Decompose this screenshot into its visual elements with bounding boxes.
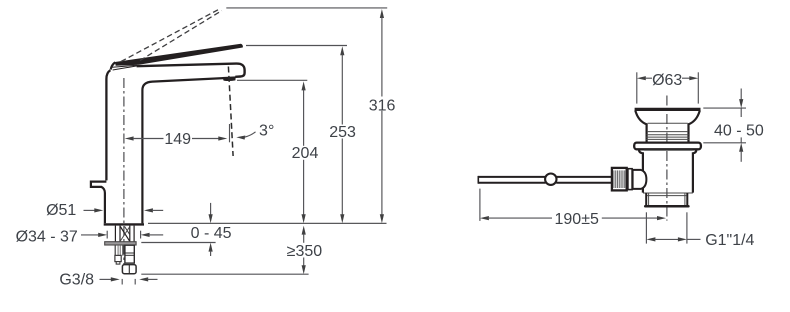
svg-text:G1"1/4: G1"1/4	[705, 232, 754, 249]
spout axis dashed (3 deg)	[228, 67, 233, 157]
drain body	[639, 149, 697, 193]
drain clamping lip	[634, 143, 701, 150]
svg-text:0 - 45: 0 - 45	[191, 225, 232, 242]
svg-text:190±5: 190±5	[555, 211, 599, 228]
faucet body centerline	[123, 78, 125, 267]
handle/body seam lines	[112, 65, 137, 70]
rod joint bulge	[633, 170, 647, 189]
pop-up rod	[478, 176, 611, 184]
dimension G1 1/4	[646, 212, 754, 249]
svg-text:G3/8: G3/8	[59, 272, 94, 289]
spout aerator outlet	[222, 76, 235, 81]
dimension Ø51	[46, 202, 163, 219]
dimension 0-45	[141, 203, 231, 256]
drain centerline	[666, 96, 668, 221]
handle lever	[111, 44, 243, 70]
mounting deck line	[148, 222, 387, 224]
dimension 316	[226, 8, 395, 223]
faucet body outline	[91, 70, 224, 224]
G3/8 hex nut	[122, 265, 136, 274]
dimension 204	[237, 80, 318, 223]
dimension 40-50	[703, 89, 764, 162]
threaded shank	[115, 226, 134, 242]
dimension Ø63	[637, 72, 699, 104]
mounting plate	[105, 242, 136, 245]
drain tailpiece	[645, 193, 688, 206]
drain flange top	[635, 109, 701, 141]
svg-text:≥350: ≥350	[287, 243, 323, 260]
dimension 3 deg leader	[236, 123, 274, 140]
svg-text:Ø63: Ø63	[652, 72, 682, 89]
svg-text:149: 149	[164, 131, 191, 148]
rod ball joint	[545, 174, 556, 185]
svg-text:40 - 50: 40 - 50	[714, 123, 764, 140]
fixing stud	[115, 245, 123, 264]
handle raised position (dashed)	[121, 9, 222, 62]
svg-text:Ø51: Ø51	[46, 202, 76, 219]
dimension 190+-5	[480, 189, 666, 228]
dimension G3/8	[59, 272, 157, 289]
dimension 149	[125, 124, 230, 148]
drain flange waist lines	[646, 123, 689, 139]
rod collar	[628, 169, 632, 190]
dimension >=350	[141, 226, 322, 275]
svg-text:253: 253	[329, 124, 356, 141]
supply hose connector	[125, 245, 134, 263]
svg-text:204: 204	[292, 145, 319, 162]
faucet spout	[137, 64, 245, 77]
rod knurled knob	[612, 168, 627, 191]
svg-text:3°: 3°	[259, 123, 274, 140]
svg-text:Ø34 - 37: Ø34 - 37	[16, 229, 78, 246]
dimension Ø34-37	[16, 229, 164, 246]
dimension 253	[246, 46, 356, 224]
